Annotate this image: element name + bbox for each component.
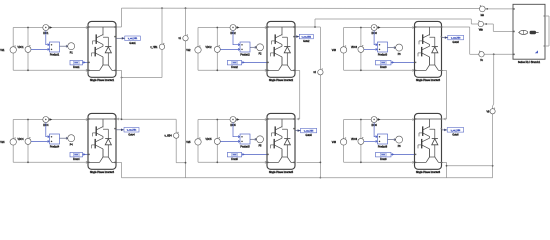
scope display P4 [68,135,75,142]
voltage measurement v1 on bus1 [183,34,188,41]
node junction VM3 bottom [360,69,362,71]
wire DC source loop cell 6 [344,118,415,163]
svg-text:Vd6: Vd6 [332,141,337,144]
label P6 [398,146,402,148]
wire top bus from HB1 + output to load [116,8,513,27]
svg-text:Single Phase Inverter5: Single Phase Inverter5 [269,171,294,174]
label VDC4 [17,139,24,141]
svg-text:Series RLC Branch1: Series RLC Branch1 [518,61,541,64]
node junction v_HB4 bottom [185,162,187,164]
label v03 [480,59,484,62]
label Vd1 [0,49,5,52]
svg-text:VDC3: VDC3 [351,47,358,49]
wire Product1 to P1 [60,45,68,47]
goto tag Goto4 [124,128,139,133]
wire DC source loop cell 5 [198,118,267,163]
label Series RLC Branch1 [518,61,541,64]
label Single Phase Inverter4 [90,171,115,174]
voltage measurement VDC5 [214,137,220,144]
wire gate signal to block 6 [391,153,415,156]
wire Product2 to P2 [250,46,257,48]
voltage measurement v_HB1 [159,43,164,50]
current measurement v01 on top bus [479,5,485,12]
label Product6 [378,145,388,148]
goto tag Goto3 [448,35,464,40]
node junction VM6 top [360,119,362,121]
label Single Phase Inverter3 [416,79,441,82]
wire gate signal to block 5 [242,153,267,156]
wire DC source loop cell 3 [344,26,415,71]
voltage measurement VDC6 [358,137,364,144]
subsystem block Single Phase Inverter4 [88,113,116,169]
label From5 [231,158,238,161]
wire gate signal to block 1 [83,61,89,64]
wire block 4 output to goto [116,129,124,132]
node junction HB2 + output [314,26,316,28]
wire VDC1 signal to product [31,48,50,50]
wire gate signal to block 4 [83,153,89,156]
svg-text:Single Phase Inverter6: Single Phase Inverter6 [416,171,441,174]
wire load right side loop [545,16,549,46]
wire bottom bus row 2 return [122,177,493,179]
label Product2 [240,53,250,56]
wire VDC2 signal to product [220,48,240,50]
multiplier Product1 [50,42,60,52]
svg-text:Single Phase Inverter1: Single Phase Inverter1 [90,79,115,82]
node junction v02 output [485,23,487,25]
from tag From4 [70,152,83,157]
voltage source VDC3 [340,45,346,53]
label From1 [73,66,80,69]
from tag From1 [70,60,83,65]
multiplier Product3 [378,42,388,52]
label Goto5 [305,134,312,137]
current measurement IDC5 [230,117,239,123]
subsystem block Single Phase Inverter1 [88,21,116,77]
voltage measurement v02 [478,20,483,26]
node junction HB5 - output [320,162,322,164]
svg-text:Single Phase Inverter3: Single Phase Inverter3 [416,79,441,82]
svg-text:IDC4: IDC4 [43,125,49,127]
label VDC3 [351,47,358,49]
from tag From5 [227,152,241,157]
voltage source VDC4 [10,137,16,145]
label P2 [259,54,263,56]
voltage measurement v_HB4 [174,132,179,139]
voltage measurement VDC1 [25,45,31,52]
node junction at load current meter output [486,8,488,10]
svg-text:Vd4: Vd4 [0,141,5,144]
label VDC2 [205,47,212,49]
wire HB6 - output to return [442,162,493,177]
wire HB2 + output chain to load [295,19,478,27]
node junction bottom bus v2 [320,177,322,179]
label Product4 [50,145,60,148]
wire HB4 - output to bottom bus [116,162,122,177]
svg-text:Vab: Vab [479,29,484,32]
label Goto4 [128,133,135,136]
wire Product6 to P6 [388,139,396,141]
wire IDC3 signal to product [374,31,377,46]
wire DC source loop cell 2 [198,26,267,71]
scope display P1 [68,43,75,50]
node junction HB1 - output [121,77,123,79]
svg-text:Vd2: Vd2 [186,49,191,52]
scope display P3 [396,44,403,51]
current measurement IDC6 [371,117,380,123]
wire load return down through v04 to bottom bus [493,54,494,177]
wire VDC3 signal to product [364,48,378,50]
node junction v_HB1 tap on top bus [161,7,163,9]
subsystem block Single Phase Inverter5 [267,113,295,169]
svg-text:IDC2: IDC2 [230,33,236,35]
node junction VM3 top [360,27,362,29]
goto tag Goto1 [125,36,141,41]
label Vd5 [186,141,191,144]
voltage source VDC1 [10,45,16,53]
svg-text:VDC1: VDC1 [17,47,24,49]
wire VDC4 signal to product [31,140,50,142]
node junction return and HB6 - wire [492,165,494,167]
label Single Phase Inverter2 [269,79,294,82]
label Goto6 [452,133,459,136]
svg-text:IDC3: IDC3 [371,33,377,35]
label From2 [231,66,238,69]
voltage measurement v04 [490,108,495,114]
node junction VM5 bottom [216,161,218,163]
label v2 [313,71,316,74]
label VDC6 [351,139,358,141]
node junction VM1 bottom [27,69,29,71]
scope display P2 [257,44,264,51]
wire block 5 output to goto [295,129,301,132]
node junction VM4 top [27,119,29,121]
label P1 [70,52,74,54]
svg-text:Single Phase Inverter2: Single Phase Inverter2 [269,79,294,82]
subsystem block Single Phase Inverter6 [415,113,443,169]
wire HB1 - output down to HB4 + input [116,70,176,120]
node junction VM1 top [27,27,29,29]
voltage source VDC6 [340,137,346,145]
label IDC2 [230,33,236,35]
label IDC6 [371,125,377,127]
label Single Phase Inverter1 [90,79,115,82]
label Goto3 [453,41,460,44]
svg-text:Single Phase Inverter4: Single Phase Inverter4 [90,171,115,174]
goto tag Goto2 [299,34,313,39]
wire VDC6 signal to product [364,140,378,142]
wire IDC1 signal to product [46,31,50,46]
svg-text:Vd3: Vd3 [332,49,337,52]
current measurement IDC3 [371,25,380,31]
wire IDC2 signal to product [233,31,240,46]
wire Product5 to P5 [250,138,257,140]
voltage measurement VDC3 [358,45,364,52]
label P5 [259,146,263,148]
label Vd3 [332,49,337,52]
subsystem block Single Phase Inverter2 [267,21,295,77]
multiplier Product6 [378,134,388,144]
label IDC5 [230,125,236,127]
label v04 [486,110,490,113]
wire block 3 output to goto [442,36,448,39]
wire v03 to load port 3 [484,53,513,55]
svg-text:VDC2: VDC2 [205,47,212,49]
wire v02 to load port 2 [484,24,514,31]
label Single Phase Inverter6 [416,171,441,174]
voltage measurement v2 [318,68,323,75]
label Product3 [378,53,388,56]
svg-text:VDC4: VDC4 [17,139,24,141]
svg-text:IDC1: IDC1 [43,33,49,35]
node junction VM2 top [216,27,218,29]
node junction VM6 bottom [360,161,362,163]
wire Product4 to P4 [60,137,68,139]
label IDC4 [43,125,49,127]
label v_HB1 [150,46,158,49]
wire v_HB1 measurement branch [122,8,163,77]
current measurement IDC2 [230,25,239,31]
subsystem block Single Phase Inverter3 [415,21,443,77]
current measurement IDC4 [43,117,52,123]
from tag From6 [376,152,392,157]
label Product1 [50,53,60,56]
svg-text:IDC6: IDC6 [371,125,377,127]
svg-text:VDC5: VDC5 [205,139,212,141]
label VDC5 [205,139,212,141]
series RLC branch block load [513,4,545,59]
wire block 6 output to goto [442,129,448,132]
voltage measurement v03 [479,51,484,58]
svg-text:Vd1: Vd1 [0,49,5,52]
multiplier Product5 [240,134,250,144]
voltage measurement VDC2 [214,45,220,52]
wire VDC5 signal to product [220,140,240,142]
label Single Phase Inverter5 [269,171,294,174]
wire DC source loop cell 4 [13,118,88,163]
label Vd2 [186,49,191,52]
wire v_HB4 measurement branch [175,119,177,162]
wire v_HB2 measurement branch down to row 2 return [297,27,321,178]
wire HB2 - output down to HB5 + input [295,70,300,120]
label From6 [380,158,387,161]
multiplier Product2 [240,42,250,52]
node junction bus1 tap on top bus [185,7,187,9]
wire HB3 + output to load meas vc [442,27,479,54]
wire IDC4 signal to product [46,123,50,138]
node junction VM2 bottom [216,69,218,71]
label v_HB4 [165,135,173,138]
node junction load return tap [493,53,495,55]
wire block 2 output to goto [295,35,299,38]
node junction HB4 + input [121,118,123,120]
label P3 [398,54,402,56]
wire IDC5 signal to product [233,123,240,138]
voltage source VDC5 [195,137,201,145]
label IDC3 [371,33,377,35]
from tag From2 [227,60,241,65]
svg-text:Vd5: Vd5 [186,141,191,144]
label IDC1 [43,33,49,35]
svg-text:v_HB4: v_HB4 [165,135,173,138]
label From4 [73,158,80,161]
wire IDC6 signal to product [374,123,377,138]
current measurement IDC1 [43,25,52,31]
label Product5 [240,145,250,148]
wire gate signal to block 2 [242,61,267,64]
label Vd6 [332,141,337,144]
label v1 [178,37,181,40]
label Vd4 [0,141,5,144]
svg-text:VDC6: VDC6 [351,139,358,141]
goto tag Goto6 [447,128,464,133]
node junction HB6 - stub [446,165,448,167]
voltage measurement VDC4 [25,137,31,144]
goto tag Goto5 [301,128,317,133]
svg-text:v_HB1: v_HB1 [150,46,158,49]
voltage source VDC2 [195,45,201,53]
wire HB3 - output down to HB6 + input [442,70,447,120]
label Goto2 [303,40,310,43]
label v01 [481,14,485,17]
label Goto1 [129,42,136,45]
node junction VM5 top [216,119,218,121]
svg-text:IDC5: IDC5 [230,125,236,127]
wire gate signal to block 3 [391,61,415,64]
wire DC source loop cell 1 [13,26,88,71]
wire block 1 output to goto [116,37,125,40]
wire series bus1 with measurement down to row 2 [176,8,185,177]
label From3 [380,66,387,69]
label P4 [70,144,74,146]
from tag From3 [376,60,392,65]
multiplier Product4 [50,134,60,144]
scope display P6 [396,136,403,143]
scope display P5 [257,136,264,143]
node junction VM4 bottom [27,161,29,163]
label VDC1 [17,47,24,49]
label v02 [479,29,484,32]
wire Product3 to P3 [388,47,396,49]
